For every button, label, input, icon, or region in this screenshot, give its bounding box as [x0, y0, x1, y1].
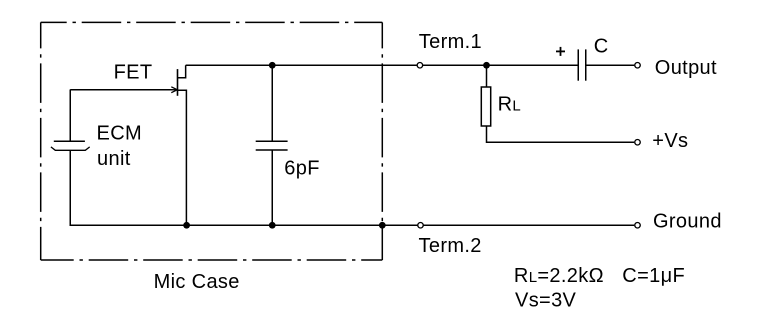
junction dot ground rail / case: [379, 222, 386, 229]
svg-text:Output: Output: [655, 57, 717, 79]
terminal Term.1 open circle: [417, 63, 423, 69]
FET gate arrowhead: [171, 87, 177, 93]
wire ECM top lead: [69, 90, 71, 142]
svg-text:FET: FET: [114, 61, 153, 83]
6pF bottom plate: [256, 149, 288, 151]
resistor RL: [481, 65, 634, 142]
RL body: [481, 87, 490, 126]
svg-text:Term.1: Term.1: [419, 31, 482, 53]
svg-text:C: C: [594, 36, 609, 58]
wire RL bottom lead to +Vs: [487, 126, 635, 142]
FET channel bar: [177, 69, 179, 96]
capacitor 6pF: [256, 65, 288, 225]
svg-text:Vs=3V: Vs=3V: [515, 289, 577, 311]
wire 6pF top lead: [271, 65, 273, 141]
svg-text:+Vs: +Vs: [652, 130, 688, 152]
C polarity plus sign: [556, 50, 565, 52]
terminal Ground open circle: [635, 223, 641, 229]
C left plate: [577, 49, 579, 80]
ECM unit electret capsule: [51, 90, 90, 151]
svg-text:Term.2: Term.2: [419, 235, 482, 257]
capacitor C (1uF): [556, 47, 586, 81]
svg-text:C=1μF: C=1μF: [622, 265, 685, 287]
terminal Output open circle: [635, 63, 641, 69]
svg-text:6pF: 6pF: [284, 158, 320, 180]
wire bottom rail (ground): [70, 151, 634, 226]
wire RL top lead: [486, 65, 488, 87]
wire FET source tap down to ground rail: [178, 90, 187, 225]
svg-text:RL=2.2kΩ: RL=2.2kΩ: [514, 265, 604, 287]
enclosure Mic Case dash-dot box: [41, 22, 383, 260]
junction dot top rail / RL: [483, 62, 490, 69]
terminal +Vs open circle: [635, 140, 641, 146]
wire FET gate from ECM: [70, 89, 172, 91]
wire FET drain tap: [178, 65, 186, 78]
svg-text:ECM: ECM: [97, 123, 143, 145]
ECM top plate: [54, 140, 85, 142]
svg-text:Ground: Ground: [653, 211, 722, 233]
transistor FET: [70, 65, 186, 225]
6pF top plate: [256, 140, 288, 142]
wire 6pF bottom lead: [271, 150, 273, 225]
wire top rail (drain to C left plate): [186, 64, 579, 66]
svg-text:Mic Case: Mic Case: [154, 271, 240, 293]
C right plate: [585, 49, 587, 80]
junction dot ground rail / FET source: [183, 222, 190, 229]
junction dot top rail / 6pF: [269, 62, 276, 69]
ECM diaphragm bottom plate: [51, 147, 90, 150]
svg-text:RL: RL: [498, 94, 521, 116]
svg-text:unit: unit: [97, 148, 131, 170]
wire C right plate to Output terminal: [586, 64, 635, 66]
junction dot ground rail / 6pF: [269, 222, 276, 229]
terminal Term.2 open circle: [418, 223, 424, 229]
